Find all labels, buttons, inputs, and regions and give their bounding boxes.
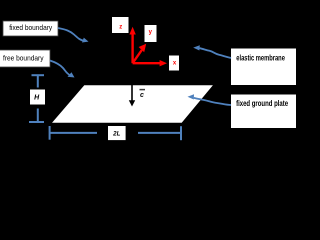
svg-text:2L: 2L (112, 131, 120, 138)
svg-text:z: z (119, 25, 122, 31)
svg-text:elastic membrane: elastic membrane (236, 53, 285, 62)
svg-text:fixed ground plate: fixed ground plate (236, 99, 288, 108)
svg-text:fixed boundary: fixed boundary (9, 23, 52, 32)
svg-text:c: c (140, 92, 144, 99)
svg-text:free boundary: free boundary (3, 54, 44, 63)
